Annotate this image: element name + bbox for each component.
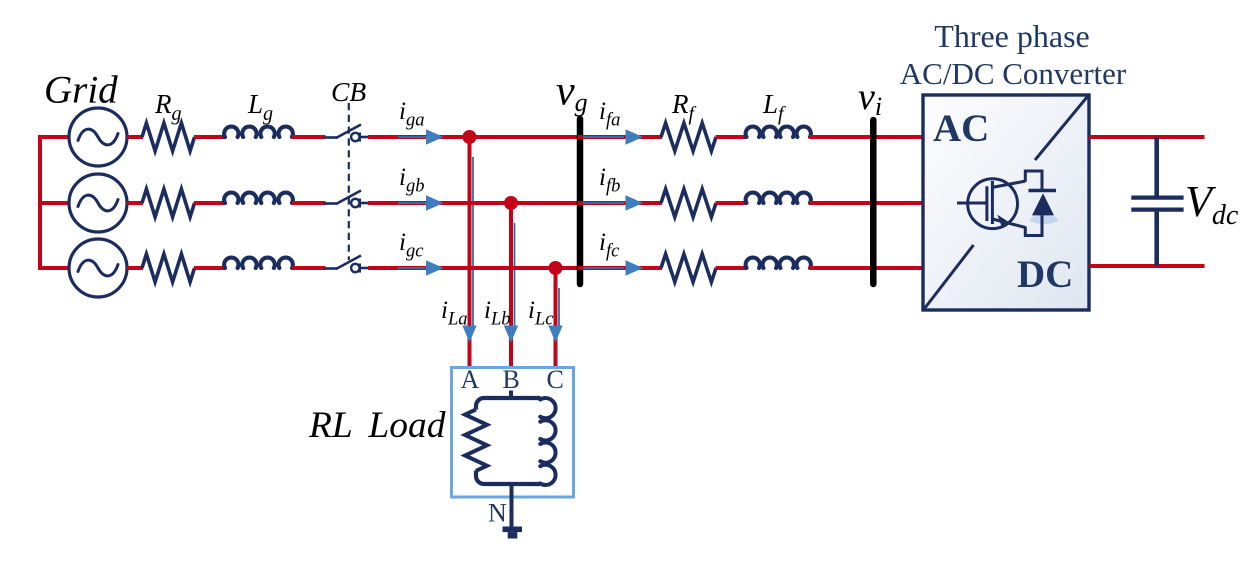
current arrow i_gc: [398, 267, 428, 269]
wire: source Vb to Rg: [127, 201, 143, 205]
wire: Lg to breaker (phase a): [292, 135, 326, 139]
wire: stub to source Vb: [38, 201, 69, 205]
wire: drop to RL load (phase b): [509, 203, 513, 369]
ground symbol: [503, 527, 523, 539]
breaker CB contact (phase b): [324, 191, 369, 208]
svg-text:AC: AC: [933, 107, 989, 150]
wire: breaker to bus vg (phase b): [368, 201, 583, 205]
AC source Vb: [69, 174, 127, 232]
bus bar vi: [870, 120, 877, 284]
svg-text:A: A: [461, 365, 480, 394]
wire: B stub into load: [509, 391, 513, 400]
svg-text:B: B: [503, 365, 520, 394]
current arrow i_Lb: [514, 223, 516, 327]
wire: Lf to converter (phase a): [809, 135, 924, 139]
wire: Lf to converter (phase c): [809, 266, 924, 270]
node: junction phase b to load: [504, 196, 518, 210]
node: junction phase c to load: [549, 261, 563, 275]
inductor Lg (phase c): [224, 258, 293, 268]
wire: breaker to bus vg (phase c): [368, 266, 583, 270]
current arrow i_ga: [398, 136, 428, 138]
wire: stub to source Va: [38, 135, 69, 139]
wire: bus vg to Rf (phase b): [578, 201, 662, 205]
resistor Rf (phase b): [661, 189, 716, 217]
resistor Rg (phase a): [142, 123, 195, 151]
wire: drop to RL load (phase a): [468, 137, 472, 369]
RL loop bottom rail: [476, 471, 540, 485]
node: junction phase a to load: [463, 130, 477, 144]
RL load box: [452, 368, 574, 498]
capacitor Cdc: [1131, 137, 1183, 266]
wire: Rg to Lg (phase a): [194, 135, 226, 139]
wire: Lf to converter (phase b): [809, 201, 924, 205]
resistor Rf (phase c): [661, 254, 716, 282]
current arrow i_gb: [398, 202, 428, 204]
inductor Lg (phase b): [224, 193, 293, 203]
resistor Rg (phase c): [142, 254, 195, 282]
wire: source Vc to Rg: [127, 266, 143, 270]
inductor Lf (phase a): [746, 127, 811, 137]
svg-text:DC: DC: [1017, 253, 1073, 296]
svg-text:Grid: Grid: [44, 69, 118, 112]
wire: Lg to breaker (phase c): [292, 266, 326, 270]
bus bar vg: [577, 119, 584, 284]
inductor Lg (phase a): [224, 127, 293, 137]
RL loop top rail: [476, 398, 540, 410]
wire: Lg to breaker (phase b): [292, 201, 326, 205]
wire: Rf to Lf (phase a): [716, 135, 747, 139]
wire: stub to source Vc: [38, 266, 69, 270]
wire: Rf to Lf (phase c): [716, 266, 747, 270]
wire: dc negative: [1089, 264, 1205, 268]
converter diagonal (lower segment): [925, 245, 974, 309]
diode D1 (anti-parallel): [1025, 171, 1058, 236]
svg-text:AC/DC Converter: AC/DC Converter: [900, 56, 1127, 91]
breaker CB contact (phase c): [324, 256, 369, 273]
AC source Vc: [69, 239, 127, 297]
current arrow i_fc: [583, 267, 624, 269]
wire: breaker to bus vg (phase a): [368, 135, 583, 139]
current arrow i_La: [472, 157, 474, 327]
wire: bus vg to Rf (phase c): [578, 266, 662, 270]
converter block U1: [923, 95, 1089, 310]
wire: Rg to Lg (phase c): [194, 266, 226, 270]
current arrow i_fb: [583, 202, 624, 204]
transistor Q1 (IGBT): [957, 179, 1025, 229]
wire: dc positive: [1089, 135, 1205, 139]
wire: drop to RL load (phase c): [554, 268, 558, 369]
converter diagonal (upper segment): [1035, 97, 1088, 161]
breaker CB dashed gang line: [348, 103, 350, 260]
svg-text:N: N: [488, 499, 507, 528]
current arrow i_Lc: [558, 288, 560, 327]
svg-text:Three phase: Three phase: [934, 18, 1089, 54]
wire: source Va to Rg: [127, 135, 143, 139]
inductor Lf (phase b): [746, 193, 811, 203]
resistor Rg (phase b): [142, 189, 195, 217]
wire: Rf to Lf (phase b): [716, 201, 747, 205]
resistor Rf (phase a): [661, 123, 716, 151]
breaker CB contact (phase a): [324, 125, 369, 142]
inductor L (load): [540, 398, 555, 485]
wire: Rg to Lg (phase b): [194, 201, 226, 205]
wire: bus vg to Rf (phase a): [578, 135, 662, 139]
inductor Lf (phase c): [746, 258, 811, 268]
svg-text:RL Load: RL Load: [308, 405, 446, 446]
wire: neutral stub: [510, 484, 514, 527]
current arrow i_fa: [583, 136, 624, 138]
svg-text:C: C: [547, 365, 564, 394]
resistor R (load): [465, 410, 487, 471]
wire: left vertical tie of sources: [38, 137, 42, 268]
AC source Va: [69, 108, 127, 166]
svg-text:CB: CB: [331, 76, 366, 107]
